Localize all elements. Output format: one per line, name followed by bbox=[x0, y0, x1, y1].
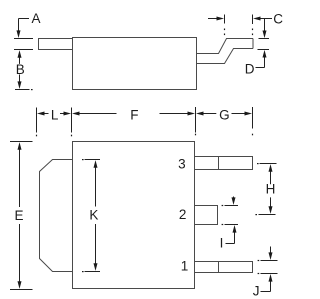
svg-text:E: E bbox=[15, 208, 24, 223]
svg-text:H: H bbox=[266, 181, 276, 196]
svg-text:A: A bbox=[32, 11, 41, 26]
svg-text:D: D bbox=[245, 62, 255, 77]
svg-text:3: 3 bbox=[178, 156, 186, 171]
svg-text:B: B bbox=[16, 62, 25, 77]
svg-text:2: 2 bbox=[179, 207, 187, 222]
svg-text:J: J bbox=[253, 284, 260, 299]
svg-text:F: F bbox=[130, 107, 138, 122]
svg-text:K: K bbox=[89, 208, 98, 223]
svg-text:L: L bbox=[51, 107, 59, 122]
svg-text:G: G bbox=[219, 108, 230, 123]
svg-text:C: C bbox=[273, 11, 283, 26]
svg-text:1: 1 bbox=[181, 258, 189, 273]
svg-text:I: I bbox=[220, 236, 224, 251]
